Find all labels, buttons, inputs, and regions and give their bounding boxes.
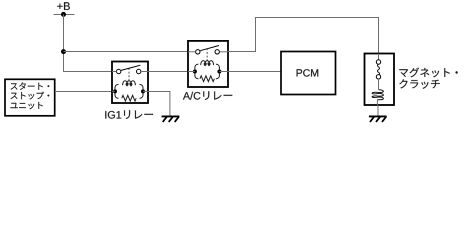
clutch connector terminal 2: [376, 75, 380, 79]
clutch coil exit wire: [376, 99, 378, 105]
wire +B to IG1 relay switch: [64, 71, 113, 73]
A/C relay switch-to-coil actuator dashed link: [206, 48, 208, 63]
junction node dot: [61, 49, 66, 54]
wire IG1 switch to A/C coil: [148, 71, 195, 73]
start-stop unit label line1: [11, 82, 50, 89]
clutch wire to coil: [378, 79, 380, 90]
+B terminal dot: [61, 12, 66, 17]
A/C relay coil parallel resistor (zigzag on bottom edge): [198, 78, 216, 80]
wire +B to A/C relay switch: [64, 51, 189, 53]
IG1 relay switch-to-coil actuator dashed link: [128, 68, 130, 84]
clutch coil (solenoid): [372, 90, 383, 100]
IG1 relay switch contact circles: [117, 69, 121, 73]
A/C relay coil row wire inside box: [188, 71, 195, 73]
IG1 relay coil parallel resistor (zigzag on bottom edge): [119, 97, 140, 99]
ground G1 below IG1 relay: [162, 115, 180, 117]
wire +B vertical feed: [63, 15, 65, 73]
IG1 relay coil terminal dots: [113, 89, 117, 93]
relay U1 IG1 box: [112, 62, 148, 104]
IG1 relay switch row wire inside box: [112, 71, 117, 73]
start-stop unit box: [5, 79, 55, 116]
magnet clutch box: [365, 54, 395, 106]
A/C relay coil terminal dots: [193, 70, 197, 74]
A/C relay coil winding (inductor on top edge): [198, 64, 216, 66]
A/C relay switch contact circles: [196, 50, 200, 54]
+B supply terminal tick: [54, 14, 75, 16]
A/C relay relay coil loop (rounded rect): [195, 64, 220, 78]
IG1 relay coil row wire inside box: [112, 90, 115, 92]
clutch connector terminal 1: [376, 60, 380, 64]
IG1 relay relay coil loop (rounded rect): [115, 85, 143, 99]
start-stop unit label line2: [11, 92, 50, 100]
PCM box: [281, 52, 336, 95]
start-stop unit label line3: [10, 102, 42, 109]
A/C relay switch row wire inside box: [188, 51, 196, 53]
label A/C relay: [183, 91, 232, 100]
wire clutch to ground: [377, 105, 379, 116]
label magnet clutch line2: [399, 79, 440, 88]
clutch feed wire inside box: [378, 54, 380, 60]
label IG1 relay: [105, 110, 153, 119]
relay U2 A/C box: [188, 41, 228, 87]
label PCM: [297, 69, 319, 76]
wire IG1 coil to ground: [148, 92, 170, 117]
clutch flexible lead squiggle: [377, 64, 379, 75]
label magnet clutch line1: [399, 68, 457, 78]
ground G2 below magnet clutch: [369, 115, 387, 117]
IG1 relay switch movable contact arm: [121, 65, 140, 70]
node +B label: [57, 2, 70, 10]
wire A/C coil to PCM: [219, 71, 281, 73]
IG1 relay coil winding (inductor on top edge): [119, 84, 140, 86]
wire start-stop unit to IG1 coil: [55, 91, 112, 93]
A/C relay switch movable contact arm: [200, 46, 219, 51]
wire A/C relay switch to magnet clutch: [228, 18, 379, 55]
